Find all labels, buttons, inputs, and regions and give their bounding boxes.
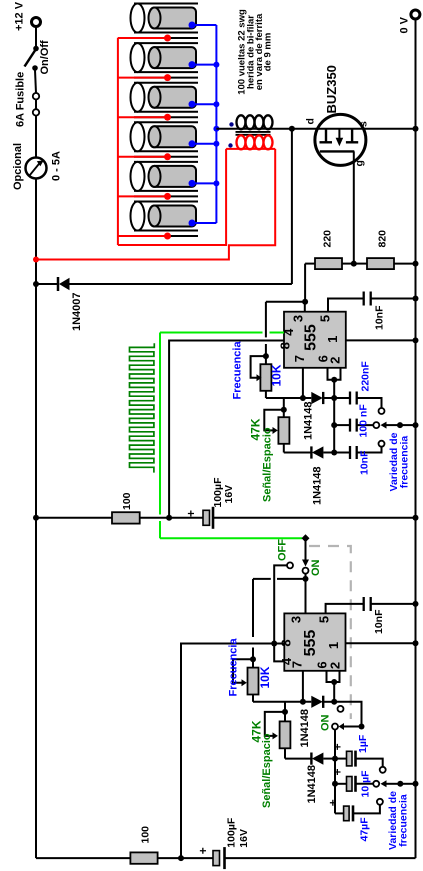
svg-text:+: +: [331, 743, 345, 750]
node D4 junction: [331, 395, 337, 401]
wire pin3 node U2 left with jump: [253, 578, 306, 580]
node D3 47K top: [281, 407, 287, 413]
svg-text:16V: 16V: [238, 829, 250, 848]
wire +12V rail lower: [35, 518, 37, 858]
wire SW3 ON to caps column: [334, 730, 336, 814]
wire D3p riser U2: [284, 702, 286, 712]
contact SW2 ON: [303, 568, 309, 574]
svg-text:10K: 10K: [270, 364, 284, 386]
svg-text:100: 100: [121, 492, 133, 510]
node D2p pin7 junction U2: [300, 699, 306, 705]
svg-text:+: +: [196, 847, 210, 854]
svg-text:820: 820: [377, 230, 389, 248]
svg-text:100 nF: 100 nF: [358, 404, 370, 438]
node SW4 common: [397, 781, 403, 787]
node Vcc1 junction: [166, 515, 172, 521]
svg-text:10nF: 10nF: [374, 305, 386, 330]
svg-text:ON: ON: [320, 714, 332, 731]
wire threshold column U1: [333, 380, 335, 453]
svg-text:s: s: [358, 121, 370, 127]
node D1p pot top U2: [250, 656, 256, 662]
wire row3: [284, 452, 312, 454]
label 100 vueltas 22 swg: [237, 9, 274, 95]
label Variedad de frecuencia SW4: [387, 791, 410, 850]
capacitor C2 220nF: [334, 392, 381, 409]
wire 220 to pin3 node: [304, 264, 306, 302]
terminal 0V: [411, 10, 420, 19]
node selector SW1 rail: [413, 422, 419, 428]
wire pin4 U1 green reset: [160, 332, 284, 334]
svg-text:100µF: 100µF: [226, 817, 238, 848]
ammeter M1 0-5A: [26, 158, 47, 179]
svg-text:8: 8: [278, 342, 293, 349]
capacitor C3 100nF: [334, 419, 373, 432]
svg-text:Frecuencia: Frecuencia: [232, 341, 244, 400]
node C6 rail: [413, 601, 419, 607]
resistor R2 100: [130, 852, 213, 863]
node pins 6-2 U2: [331, 679, 337, 685]
contact SW3 open: [338, 706, 344, 712]
diode D1a 1N4148: [311, 392, 334, 404]
wire +12V rail middle: [35, 284, 37, 518]
wire pin5 U1: [328, 299, 363, 312]
electrode tube T1: [118, 4, 216, 42]
wire pin1 U1 to rail: [346, 339, 416, 341]
op-amp U2 555 timer box: [284, 613, 345, 670]
wire pin3 U2 to box: [305, 579, 307, 614]
svg-text:47µF: 47µF: [359, 817, 371, 842]
node pin3 U2: [303, 576, 309, 582]
node green to switch SW2: [302, 534, 310, 542]
op-amp U1 555 timer box: [284, 312, 346, 368]
wire pins 6 and 2 U1 tie: [328, 368, 341, 380]
svg-text:10nF: 10nF: [359, 450, 371, 475]
terminal +12V: [32, 18, 41, 27]
node 10uF row junction: [332, 781, 338, 787]
svg-text:frecuencia: frecuencia: [399, 436, 411, 489]
wire pin8 U2 Vcc2: [181, 644, 284, 859]
switch On/Off: [25, 46, 39, 71]
wire primary winding to drain and rail: [216, 128, 415, 130]
capacitor C7 1uF: [335, 751, 383, 767]
selector SW1 wiper arrow: [381, 422, 401, 429]
wire pin7 U2: [302, 671, 304, 702]
wire pin3 U1: [304, 302, 306, 312]
contact SW3 ON: [332, 724, 338, 730]
svg-text:2: 2: [328, 662, 343, 669]
svg-text:d: d: [305, 118, 317, 124]
transformer TR1 core: [236, 132, 271, 135]
wire pin5 U2: [326, 604, 364, 614]
electrode tube T2: [118, 43, 216, 81]
node D6 junction: [331, 450, 337, 456]
svg-text:10 µF: 10 µF: [360, 770, 372, 798]
svg-text:1N4148: 1N4148: [299, 709, 311, 748]
node SW3 common: [359, 724, 365, 730]
capacitor C8 10uF: [335, 776, 373, 792]
svg-text:1: 1: [326, 642, 341, 649]
wire row1 U2: [253, 701, 311, 703]
potentiometer P1 10K Frecuencia: [251, 356, 272, 398]
wire pin3 column U2 down with jump: [252, 579, 254, 659]
svg-text:1N4148: 1N4148: [312, 466, 324, 505]
transformer TR1 primary winding: [237, 115, 273, 129]
contact 220nF selector: [379, 408, 385, 414]
node C1 to rail: [413, 296, 419, 302]
svg-text:+12 V: +12 V: [14, 1, 26, 31]
waveform square wave output U1: [130, 343, 155, 472]
svg-text:g: g: [354, 160, 366, 166]
electrode tube T6: [118, 202, 216, 240]
contact 1uF selector: [380, 767, 386, 773]
wire pins 6 and 2 U2 tie: [327, 671, 340, 682]
wire selector SW1 to rail: [400, 424, 416, 426]
diode D5 1N4007: [36, 277, 292, 291]
svg-text:OFF: OFF: [277, 539, 289, 561]
capacitor C9 47uF: [335, 805, 380, 822]
node Vcc2 junction: [178, 855, 184, 861]
switch SW3 lever arrow: [339, 723, 362, 730]
node pin1 U2 rail: [413, 640, 419, 646]
node C5 return rail: [413, 515, 419, 521]
wire 0V rail: [415, 19, 417, 858]
node blue bus primary junction: [213, 126, 219, 132]
svg-text:2: 2: [328, 357, 343, 364]
wire dashed gang link: [309, 546, 351, 719]
wire threshold stub U2: [333, 682, 335, 702]
svg-text:5: 5: [317, 616, 332, 623]
contact 10nF selector: [379, 441, 385, 447]
wire SW4 to rail: [400, 783, 415, 785]
contact 47uF selector: [377, 799, 383, 805]
diode D2a 1N4148: [311, 446, 334, 458]
svg-text:10K: 10K: [258, 666, 272, 688]
node selector SW1 common: [397, 422, 403, 428]
svg-text:+: +: [326, 799, 340, 806]
svg-text:555: 555: [303, 324, 320, 351]
svg-text:6A Fusible: 6A Fusible: [15, 72, 27, 127]
node D6p junction U2: [332, 756, 338, 762]
capacitor C6 10nF: [364, 597, 416, 611]
capacitor C5 100uF 16V: [203, 507, 416, 529]
svg-text:3: 3: [289, 616, 304, 623]
potentiometer P4 47K Senal/Espacio: [265, 712, 291, 759]
wire pin4 U2 tie: [274, 644, 284, 662]
svg-text:7: 7: [292, 355, 307, 362]
svg-text:On/Off: On/Off: [39, 40, 51, 75]
node primary-drain junction: [289, 126, 295, 132]
node D5 junction: [331, 422, 337, 428]
node Vcc1 tap: [33, 515, 39, 521]
wire pin3 node left: [266, 301, 305, 303]
node pin3 U1: [302, 299, 308, 305]
svg-text:Opcional: Opcional: [12, 143, 24, 190]
node pin4 tie: [271, 641, 277, 647]
svg-text:BUZ350: BUZ350: [324, 65, 339, 113]
wire gate: [353, 151, 355, 263]
contact 100nF selector: [373, 422, 379, 428]
svg-text:100: 100: [140, 826, 152, 844]
wire switch to fuse: [35, 70, 36, 93]
svg-text:Frecuencia: Frecuencia: [228, 638, 240, 697]
svg-text:Señal/Espacio: Señal/Espacio: [262, 427, 274, 502]
node blue bus T3: [213, 101, 219, 107]
wire red winding top edge: [226, 148, 275, 150]
node pins 6-2 U1: [331, 377, 337, 383]
capacitor C4 10nF selector: [334, 446, 381, 459]
wire blue bus: [215, 25, 217, 223]
switch SW2 lever arrow: [302, 538, 309, 566]
resistor R1 100: [112, 512, 203, 523]
wire fuse to meter: [35, 116, 37, 158]
node SW4 rail: [413, 781, 419, 787]
capacitor C10 100uF 16V: [213, 847, 416, 869]
diode D3a 1N4148: [311, 696, 334, 708]
svg-text:1N4148: 1N4148: [306, 765, 318, 804]
svg-text:+: +: [331, 768, 345, 775]
diode D4a 1N4148: [311, 753, 335, 765]
node D4p junction U2: [331, 699, 337, 705]
node blue bus T2: [213, 62, 219, 68]
wire pin8 U1 Vcc: [169, 341, 284, 518]
contact 10uF selector: [373, 781, 379, 787]
node pin1 U1 rail: [413, 337, 419, 343]
svg-text:Señal/Espacio: Señal/Espacio: [261, 733, 273, 808]
svg-text:ON: ON: [310, 559, 322, 576]
wire pin7 U1: [302, 368, 304, 398]
node D3p 47K top U2: [282, 709, 288, 715]
wire Vcc2 line from rail: [36, 857, 130, 859]
svg-text:7: 7: [290, 661, 305, 668]
selector SW4 wiper arrow: [381, 780, 401, 787]
node gate junction: [351, 261, 357, 267]
wire red feed A winding to cylinder bus: [118, 149, 226, 245]
wire terminal to switch: [35, 27, 37, 49]
wire pin1 U2 to rail: [346, 642, 416, 644]
svg-text:0 - 5A: 0 - 5A: [51, 151, 63, 181]
svg-text:555: 555: [302, 630, 319, 657]
electrode tube T3: [118, 83, 216, 121]
wire red feed B from rail to winding: [36, 149, 275, 260]
node red tap: [33, 257, 39, 263]
svg-text:0 V: 0 V: [399, 16, 411, 33]
node 820 to rail: [413, 261, 419, 267]
transformer TR1 secondary winding: [237, 135, 273, 149]
node blue bus T4: [213, 141, 219, 147]
node D1 pot top U1: [263, 353, 269, 359]
svg-text:16V: 16V: [223, 485, 235, 504]
fuse F1 6A: [33, 93, 39, 116]
wire row1 pot bottom to pin7: [266, 397, 311, 399]
wire +12V rail upper: [35, 179, 37, 285]
electrode tube T4: [118, 122, 216, 160]
wire SW2 OFF to Vcc2: [274, 565, 287, 643]
node diode tap: [33, 281, 39, 287]
wire D4p to switch SW3 common: [334, 702, 361, 727]
contact SW2 OFF: [287, 562, 293, 568]
svg-text:frecuencia: frecuencia: [398, 794, 410, 847]
wire D3 riser: [283, 398, 285, 410]
svg-text:3: 3: [291, 315, 306, 322]
svg-text:5: 5: [318, 315, 333, 322]
wire row B U2: [285, 758, 311, 760]
svg-text:1µF: 1µF: [357, 734, 369, 753]
svg-text:+: +: [184, 510, 198, 517]
svg-text:de 9 mm: de 9 mm: [263, 33, 274, 72]
wire drain node to 1N4007 line: [291, 129, 293, 284]
wire pin3 column down with jump: [265, 302, 267, 356]
label Variedad de frecuencia SW1: [388, 432, 411, 491]
resistor R4 820: [354, 258, 416, 269]
electrode tube T5: [118, 162, 216, 200]
transistor Q1 BUZ350: [315, 114, 366, 165]
svg-text:1N4148: 1N4148: [303, 401, 315, 440]
wire red cylinder bus: [117, 38, 119, 245]
potentiometer P2 47K Senal/Espacio: [264, 410, 289, 453]
svg-text:1N4007: 1N4007: [71, 292, 83, 331]
wire Vcc1 line from rail: [36, 517, 112, 519]
svg-text:220nF: 220nF: [360, 361, 372, 392]
node D2 pin7 junction: [300, 395, 306, 401]
transformer TR1 phase dot secondary: [228, 143, 232, 147]
wire SW2 ON stub: [305, 574, 307, 579]
svg-text:10nF: 10nF: [373, 609, 385, 634]
svg-text:1: 1: [325, 336, 340, 343]
wire green reset down with jump: [159, 333, 161, 539]
capacitor C1 10nF: [364, 292, 416, 306]
wire green reset bottom: [160, 537, 302, 539]
node blue bus T5: [213, 180, 219, 186]
svg-text:47K: 47K: [249, 418, 263, 440]
svg-text:220: 220: [322, 230, 334, 248]
node source to 0V rail: [413, 126, 419, 132]
potentiometer P3 10K Frecuencia: [233, 659, 259, 702]
resistor R3 220: [305, 258, 354, 269]
transformer TR1 phase dot primary: [229, 122, 233, 126]
